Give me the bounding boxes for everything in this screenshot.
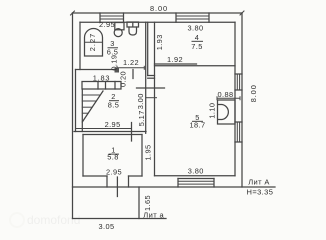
svg-text:4: 4 — [195, 33, 200, 42]
svg-text:1.95: 1.95 — [144, 145, 153, 161]
svg-text:8.5: 8.5 — [108, 100, 119, 109]
svg-text:3.80: 3.80 — [188, 23, 204, 32]
svg-text:1.22: 1.22 — [123, 58, 139, 67]
svg-text:3.80: 3.80 — [188, 166, 204, 175]
svg-text:2.27: 2.27 — [88, 33, 97, 51]
svg-text:7.5: 7.5 — [191, 42, 202, 51]
svg-text:1.92: 1.92 — [167, 55, 183, 64]
svg-text:1.93: 1.93 — [155, 34, 164, 50]
svg-text:1.83: 1.83 — [93, 73, 111, 82]
svg-text:2.95: 2.95 — [106, 167, 122, 176]
svg-text:3.05: 3.05 — [99, 222, 115, 231]
svg-text:1.10: 1.10 — [208, 103, 217, 119]
svg-text:Лит А: Лит А — [248, 177, 270, 186]
svg-text:0.88: 0.88 — [218, 90, 234, 99]
svg-text:1.65: 1.65 — [143, 195, 152, 211]
svg-text:2.95: 2.95 — [105, 120, 121, 129]
svg-text:8.00: 8.00 — [150, 4, 168, 13]
svg-text:3.00: 3.00 — [136, 93, 145, 109]
svg-text:18.7: 18.7 — [190, 121, 206, 130]
svg-text:Н=3.35: Н=3.35 — [247, 187, 274, 196]
svg-text:0.20: 0.20 — [119, 71, 128, 87]
svg-text:0.19: 0.19 — [110, 55, 119, 71]
svg-text:5.17: 5.17 — [137, 110, 146, 126]
svg-text:Лит а: Лит а — [143, 210, 164, 219]
svg-text:8.00: 8.00 — [249, 84, 258, 102]
svg-text:2.95: 2.95 — [99, 20, 115, 29]
